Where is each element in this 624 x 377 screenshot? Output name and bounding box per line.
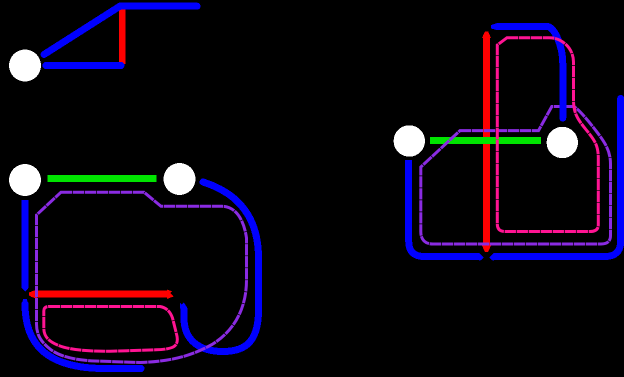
blue taper into crossing — [21, 287, 28, 293]
edge blue bottom sweep — [25, 304, 141, 369]
edge blue bottom horizontal — [46, 62, 121, 69]
loop purple P1 — [37, 192, 247, 362]
edge red double arrow — [36, 291, 168, 298]
edge green — [430, 137, 541, 144]
loop magenta M1 — [44, 307, 178, 352]
crossing mark X3 — [481, 22, 493, 33]
red arrowhead right — [167, 290, 175, 299]
blue arrow tip up — [180, 301, 188, 310]
loop purple P2 — [421, 107, 611, 245]
edge blue big bottom path right part — [494, 99, 621, 257]
loop magenta M2 — [497, 38, 598, 232]
red arrowhead down — [482, 246, 491, 252]
node V3 — [164, 163, 196, 195]
node V5 — [547, 127, 578, 158]
edge green — [48, 175, 157, 182]
node V2 — [9, 164, 41, 196]
edge blue big bottom path left part — [409, 160, 480, 257]
edge red vertical — [119, 9, 126, 64]
edge blue diagonal — [44, 6, 121, 55]
crossing mark X1 — [20, 288, 32, 299]
edge blue top arc to node — [498, 27, 563, 119]
edge blue top horizontal — [121, 3, 198, 10]
blue taper out of crossing — [21, 299, 28, 305]
node V1 — [9, 50, 41, 82]
red arrowhead up — [482, 32, 491, 39]
blue taper out of crossing right — [489, 253, 494, 261]
crossing mark X4 — [481, 252, 493, 263]
edge red double arrow vertical — [483, 37, 490, 247]
blue taper into crossing left — [479, 253, 484, 261]
node V4 — [394, 125, 425, 156]
edge blue from left node down — [22, 200, 29, 287]
blue arrow tip left — [491, 23, 498, 30]
crossing mark X2 — [172, 292, 184, 303]
edge blue arc from right node with U-turn — [184, 182, 259, 352]
red arrowhead left — [29, 290, 37, 299]
